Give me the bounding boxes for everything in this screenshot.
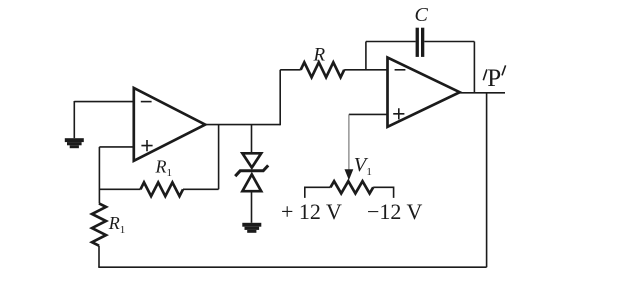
svg-text:C: C bbox=[415, 4, 429, 26]
op-amp U2 minus pin mark bbox=[395, 69, 406, 71]
svg-text:P: P bbox=[487, 65, 501, 92]
wire: R right lead to opamp2 - input bbox=[344, 69, 387, 71]
wire: pot right lead with terminal tick bbox=[373, 187, 393, 198]
wire: opamp2 output stub bbox=[460, 92, 505, 94]
op-amp U1 triangle bbox=[134, 88, 205, 161]
wire: potentiometer wiper (thin) bbox=[348, 114, 350, 171]
wire: riser from opamp1 output to resistor R level bbox=[279, 70, 281, 126]
ground symbol (below diodes) bbox=[242, 223, 261, 227]
wire: capacitor right lead bbox=[424, 41, 474, 43]
op-amp U2 plus pin mark bbox=[393, 108, 404, 119]
wire: opamp1 inverting input to ground, horizontal bbox=[74, 101, 134, 103]
node T-prime label bbox=[483, 69, 487, 80]
wire: bottom feedback rail bbox=[98, 266, 486, 268]
svg-text:−12 V: −12 V bbox=[367, 199, 423, 224]
resistor R1 (vertical) bbox=[92, 203, 106, 245]
ground symbol (left, at opamp1 - input) bbox=[65, 138, 84, 142]
wire: R left lead bbox=[280, 69, 301, 71]
op-amp U1 minus pin mark bbox=[141, 101, 152, 103]
wire: opamp2 + input horizontal bbox=[349, 113, 388, 115]
wire: opamp1 non-inverting input horizontal bbox=[99, 146, 133, 148]
wire: opamp1 output bbox=[205, 124, 280, 126]
wire: capacitor feedback left riser bbox=[365, 42, 367, 70]
wire: R1 bottom lead to bottom rail bbox=[98, 246, 100, 268]
wire: feedback riser to opamp1 output bbox=[218, 125, 220, 190]
zener shared bar with bent ends bbox=[235, 165, 268, 176]
wire: feedback node to resistor R1 (left lead) bbox=[99, 188, 140, 190]
potentiometer V1 body bbox=[331, 181, 374, 193]
wire: diode to ground bbox=[251, 191, 253, 223]
wire: R1 right lead bbox=[183, 188, 219, 190]
wire: vertical drop to ground bbox=[73, 101, 75, 138]
wire: diode branch drop bbox=[251, 125, 253, 153]
wire: capacitor feedback right riser to output bbox=[473, 42, 475, 93]
op-amp U1 plus pin mark bbox=[141, 140, 152, 151]
wiper arrowhead bbox=[345, 169, 354, 180]
wire: vertical from + input down to feedback node bbox=[98, 147, 100, 204]
wire: capacitor left lead bbox=[366, 41, 416, 43]
resistor R bbox=[301, 62, 345, 77]
capacitor C plates bbox=[416, 28, 419, 57]
wire: output drop to bottom rail bbox=[486, 93, 488, 267]
zener diode D2 (bottom, cathode down) bbox=[242, 174, 261, 191]
svg-text:+ 12 V: + 12 V bbox=[281, 199, 342, 224]
wire: pot left lead with terminal tick bbox=[305, 187, 331, 198]
svg-text:R: R bbox=[313, 44, 326, 65]
zener diode D1 (top, cathode up) bbox=[242, 153, 261, 167]
resistor R1 (feedback, horizontal) bbox=[141, 182, 184, 196]
op-amp U2 triangle bbox=[388, 58, 460, 127]
